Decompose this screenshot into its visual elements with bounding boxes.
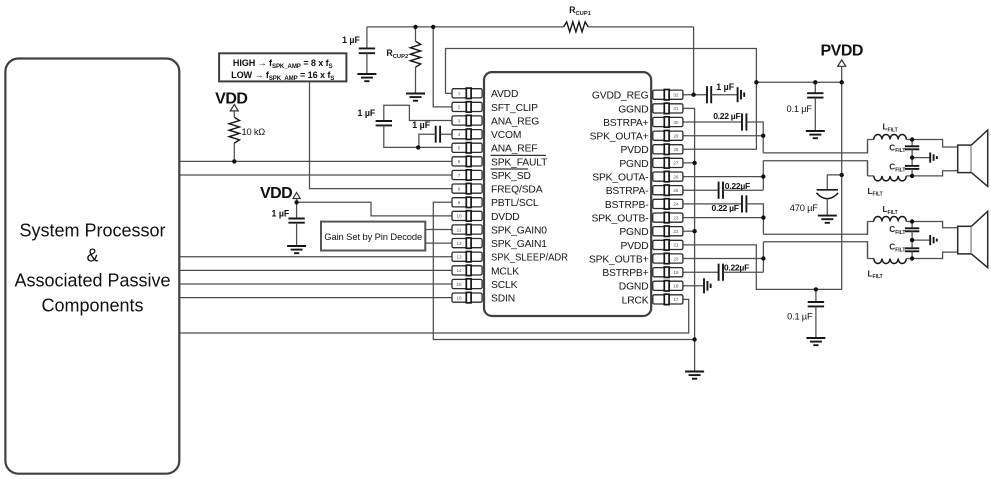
svg-text:SPK_FAULT: SPK_FAULT [491,157,548,168]
svg-text:SPK_SD: SPK_SD [491,171,531,182]
svg-text:22: 22 [673,229,679,234]
svg-text:1 µF: 1 µF [412,120,430,130]
svg-text:27: 27 [673,161,679,166]
svg-text:0.22µF: 0.22µF [725,181,750,191]
svg-text:25: 25 [673,188,679,193]
svg-text:PVDD: PVDD [620,145,648,156]
svg-text:PVDD: PVDD [620,241,648,252]
svg-text:PBTL/SCL: PBTL/SCL [491,198,539,209]
svg-text:2: 2 [458,105,461,110]
svg-text:10 kΩ: 10 kΩ [242,127,266,137]
svg-text:SPK_OUTB-: SPK_OUTB- [591,214,648,225]
svg-text:SDIN: SDIN [491,294,515,305]
svg-text:SCLK: SCLK [491,280,518,291]
svg-text:&: & [86,246,98,266]
svg-text:System Processor: System Processor [19,220,165,240]
svg-text:21: 21 [673,243,679,248]
svg-text:3: 3 [458,118,461,123]
svg-text:0.1 µF: 0.1 µF [787,104,813,114]
svg-text:31: 31 [673,106,679,111]
svg-text:6: 6 [458,159,461,164]
svg-text:FREQ/SDA: FREQ/SDA [491,185,543,196]
svg-text:9: 9 [458,200,461,205]
svg-text:11: 11 [457,227,462,232]
svg-text:23: 23 [673,215,679,220]
svg-text:SPK_GAIN0: SPK_GAIN0 [491,225,547,236]
svg-text:1 µF: 1 µF [716,82,734,92]
svg-text:16: 16 [456,295,462,300]
svg-text:Components: Components [41,296,143,316]
svg-text:1 µF: 1 µF [358,108,376,118]
svg-text:MCLK: MCLK [491,266,519,277]
svg-text:1: 1 [458,91,461,96]
svg-text:VDD: VDD [215,91,247,108]
svg-text:0.22µF: 0.22µF [724,263,749,273]
svg-text:AVDD: AVDD [491,89,518,100]
svg-text:26: 26 [673,174,679,179]
svg-text:20: 20 [673,256,679,261]
svg-text:29: 29 [673,134,679,139]
svg-text:ANA_REG: ANA_REG [491,116,539,127]
svg-text:470 µF: 470 µF [790,203,818,213]
svg-text:BSTRPB-: BSTRPB- [605,200,649,211]
svg-text:5: 5 [458,146,461,151]
svg-text:14: 14 [456,268,462,273]
svg-text:SPK_OUTB+: SPK_OUTB+ [589,254,649,265]
svg-text:SPK_GAIN1: SPK_GAIN1 [491,239,547,250]
svg-text:19: 19 [673,270,679,275]
svg-text:1 µF: 1 µF [342,35,360,45]
svg-text:17: 17 [673,297,679,302]
svg-text:0.22 µF: 0.22 µF [712,203,739,213]
svg-text:GVDD_REG: GVDD_REG [592,91,649,102]
svg-text:8: 8 [458,186,461,191]
svg-text:PGND: PGND [619,227,648,238]
svg-text:SPK_OUTA-: SPK_OUTA- [592,173,648,184]
svg-text:1 µF: 1 µF [272,208,290,218]
svg-text:13: 13 [456,255,462,260]
svg-text:Gain Set by Pin Decode: Gain Set by Pin Decode [324,231,422,242]
svg-text:VDD: VDD [260,185,292,202]
svg-text:PGND: PGND [619,159,648,170]
svg-text:ANA_REF: ANA_REF [491,144,537,155]
svg-text:VCOM: VCOM [491,130,521,141]
svg-text:30: 30 [673,120,679,125]
svg-text:12: 12 [456,241,462,246]
svg-text:24: 24 [673,202,679,207]
svg-text:28: 28 [673,147,679,152]
svg-text:Associated Passive: Associated Passive [14,271,170,291]
svg-text:0.22 µF: 0.22 µF [713,111,740,121]
svg-text:SPK_SLEEP/ADR: SPK_SLEEP/ADR [491,253,568,264]
svg-text:PVDD: PVDD [820,42,862,59]
svg-text:SFT_CLIP: SFT_CLIP [491,103,538,114]
svg-text:10: 10 [456,214,462,219]
svg-text:DGND: DGND [619,282,649,293]
svg-text:15: 15 [456,282,462,287]
svg-text:4: 4 [458,132,461,137]
svg-text:BSTRPA-: BSTRPA- [606,186,649,197]
svg-text:DVDD: DVDD [491,212,520,223]
svg-text:GGND: GGND [618,104,648,115]
svg-text:7: 7 [458,173,461,178]
svg-text:BSTRPA+: BSTRPA+ [603,118,649,129]
svg-text:BSTRPB+: BSTRPB+ [602,268,648,279]
svg-text:32: 32 [673,93,679,98]
svg-text:0.1 µF: 0.1 µF [787,312,813,322]
svg-text:SPK_OUTA+: SPK_OUTA+ [590,132,649,143]
svg-text:18: 18 [673,284,679,289]
svg-text:LRCK: LRCK [622,295,649,306]
